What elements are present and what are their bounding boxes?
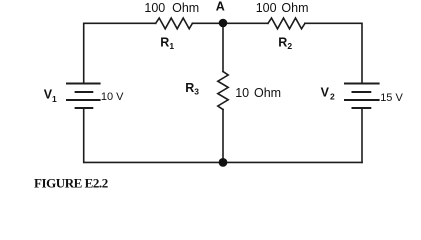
resistor R2 [268,18,305,29]
svg-text:15 V: 15 V [380,92,403,104]
wire right rail V2 to bottom [361,108,363,162]
wire R1 to R2 through node A [192,22,268,24]
svg-text:V2: V2 [321,85,335,101]
svg-text:R1: R1 [160,35,174,51]
wire bottom [84,161,362,163]
svg-text:R2: R2 [278,35,292,51]
svg-text:10 V: 10 V [101,91,124,103]
wire node A down to R3 [222,23,224,71]
svg-text:V1: V1 [44,88,57,104]
resistor R3 [218,72,228,110]
wire R2 to right rail down to V2 [305,23,362,83]
resistor R1 [156,18,193,29]
svg-text:FIGURE E2.2: FIGURE E2.2 [34,175,108,190]
svg-text:A: A [216,0,225,13]
svg-text:R3: R3 [185,81,199,97]
battery V1 [66,84,101,109]
wire top-left (left rail to R1) [84,23,156,83]
svg-text:100Ohm: 100Ohm [144,1,199,15]
svg-text:10Ohm: 10Ohm [235,86,281,100]
node A junction dot [219,19,228,28]
svg-text:100Ohm: 100Ohm [256,1,309,15]
bottom junction dot [219,158,228,167]
wire left rail V1 to bottom [83,108,85,162]
battery V2 [344,84,380,109]
wire R3 to bottom node [222,110,224,163]
